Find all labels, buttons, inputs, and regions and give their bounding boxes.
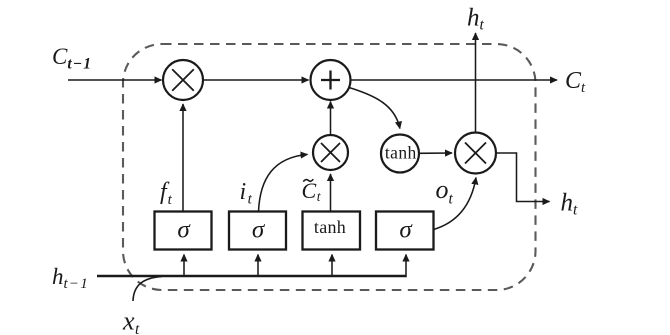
svg-text:tanh: tanh <box>385 143 417 163</box>
wire tanh to multiply3 <box>419 152 452 154</box>
wire C_t-1 input <box>68 79 162 81</box>
multiply node output gate <box>455 133 496 174</box>
wire branch to sigma2 <box>257 255 259 277</box>
wire h_t-1 bottom bus <box>97 275 406 278</box>
wire tanh gate to multiply2 <box>330 174 332 212</box>
svg-text:Ct−1: Ct−1 <box>52 44 92 73</box>
tanh gate box 3 candidate <box>303 212 361 250</box>
wire h_t right output <box>496 153 550 202</box>
wire multiply2 to plus <box>330 102 332 135</box>
svg-text:ot: ot <box>436 175 454 208</box>
sigma gate box 4 output <box>376 212 434 250</box>
svg-text:σ: σ <box>177 217 191 244</box>
wire f gate to multiply1 <box>182 104 184 212</box>
svg-text:σ: σ <box>399 217 413 244</box>
wire i gate to multiply2 curve <box>259 154 308 211</box>
LSTM cell dashed boundary <box>123 44 536 290</box>
svg-text:it: it <box>240 179 253 208</box>
multiply node input gate <box>313 135 348 170</box>
tanh node output activation <box>381 135 419 173</box>
wire plus to tanh curve <box>349 88 400 129</box>
wire h_t upward output <box>475 33 477 133</box>
svg-text:xt: xt <box>122 307 140 335</box>
sigma gate box 2 input <box>229 212 286 250</box>
svg-text:ht: ht <box>467 5 485 34</box>
svg-text:ft: ft <box>160 179 173 208</box>
svg-text:Ct: Ct <box>302 178 322 204</box>
svg-text:ht: ht <box>561 190 579 219</box>
plus node cell update <box>311 60 351 100</box>
sigma gate box 1 forget <box>155 212 212 250</box>
multiply node forget gate <box>163 60 203 100</box>
wire x_t input curve <box>133 276 162 301</box>
wire o gate to multiply3 curve <box>434 178 477 230</box>
svg-text:Ct: Ct <box>565 68 586 96</box>
svg-text:tanh: tanh <box>314 217 346 237</box>
wire branch to sigma1 <box>183 255 185 277</box>
wire branch to tanh box <box>331 255 333 277</box>
svg-text:σ: σ <box>252 217 266 244</box>
wire plus to C_t output <box>350 79 557 81</box>
svg-text:ht−1: ht−1 <box>52 264 89 292</box>
wire multiply to plus <box>203 79 309 81</box>
